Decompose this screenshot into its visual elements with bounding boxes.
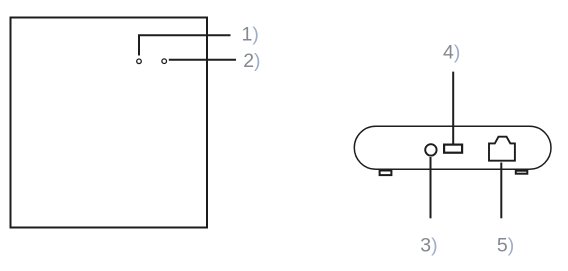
leader line 5 — [500, 163, 502, 219]
ethernet jack 5 — [489, 137, 515, 161]
power connector circle 3 — [425, 144, 436, 155]
leader line 1 — [139, 35, 231, 55]
svg-text:4): 4) — [443, 41, 460, 63]
device body rear view — [354, 126, 551, 169]
leader line 3 — [430, 157, 432, 218]
svg-text:1): 1) — [242, 23, 259, 45]
svg-text:5): 5) — [497, 234, 514, 256]
device box top view — [11, 18, 208, 228]
port rectangle 4 — [444, 145, 462, 153]
svg-text:2): 2) — [243, 50, 260, 72]
right foot — [516, 171, 528, 174]
left foot — [380, 171, 392, 176]
leader line 2 — [169, 59, 236, 61]
leader line 4 — [452, 72, 454, 144]
LED 1 — [137, 59, 142, 64]
svg-text:3): 3) — [420, 234, 437, 256]
LED 2 — [162, 59, 167, 64]
